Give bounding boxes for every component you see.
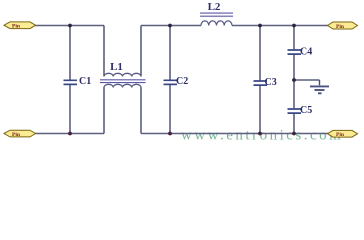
svg-text:L1: L1: [110, 61, 123, 73]
inductor L2: [200, 1, 233, 26]
wire C4 branch upper: [293, 26, 295, 50]
wire C1 branch lower: [69, 85, 71, 134]
port Pin bottom-left: [4, 130, 36, 138]
wire L1 top-left lead: [103, 26, 105, 77]
wire bottom rail left (pin2 to L1): [35, 133, 104, 135]
wire ground stub vertical: [319, 80, 321, 85]
junction top C3: [258, 24, 262, 28]
junction bottom C1: [68, 132, 72, 136]
capacitor C2: [164, 76, 189, 87]
capacitor C5: [288, 105, 313, 116]
capacitor C1: [64, 76, 92, 87]
wire ground tap horizontal: [294, 79, 320, 81]
svg-text:Pin: Pin: [336, 132, 345, 138]
junction bottom C3: [258, 132, 262, 136]
wire C5 branch lower: [293, 113, 295, 133]
wire top rail right (L2 to pin3): [232, 25, 328, 27]
wire C3 branch upper: [259, 26, 261, 81]
wire C3 branch lower: [259, 85, 261, 133]
wire L1 bottom-left lead: [103, 88, 105, 134]
svg-text:L2: L2: [208, 1, 221, 13]
wire top rail left (pin1 to L1): [35, 25, 104, 27]
junction top C1: [68, 24, 72, 28]
junction bottom C5: [292, 132, 296, 136]
wire L1 bottom-right lead: [140, 88, 142, 134]
port Pin top-left: [4, 22, 36, 30]
junction top C2: [168, 24, 172, 28]
capacitor C4: [288, 47, 313, 58]
wire C1 branch upper: [69, 26, 71, 81]
junction bottom C2: [168, 132, 172, 136]
svg-text:C5: C5: [300, 105, 312, 116]
wire bottom rail right (L1 to pin4): [141, 133, 328, 135]
capacitor C3: [254, 77, 277, 88]
svg-text:C4: C4: [300, 47, 312, 58]
inductor L1 (common-mode choke): [100, 61, 146, 88]
port Pin top-right: [328, 22, 358, 30]
wire C2 branch upper: [169, 26, 171, 81]
svg-text:Pin: Pin: [12, 132, 21, 138]
junction C4-C5 ground tap: [292, 78, 296, 82]
wire L1 top-right lead: [140, 26, 142, 77]
wire C4 branch lower: [293, 54, 295, 80]
svg-text:Pin: Pin: [336, 24, 345, 30]
junction top C4: [292, 24, 296, 28]
wire top rail middle (L1 to L2): [141, 25, 201, 27]
svg-text:C2: C2: [176, 76, 188, 87]
wire C2 branch lower: [169, 85, 171, 134]
svg-text:www.entronics.com: www.entronics.com: [181, 127, 343, 143]
svg-text:Pin: Pin: [12, 24, 21, 30]
svg-text:C3: C3: [265, 77, 277, 88]
wire C5 branch upper: [293, 80, 295, 109]
svg-text:C1: C1: [79, 76, 91, 87]
ground: [310, 86, 329, 93]
port Pin bottom-right: [328, 130, 358, 138]
